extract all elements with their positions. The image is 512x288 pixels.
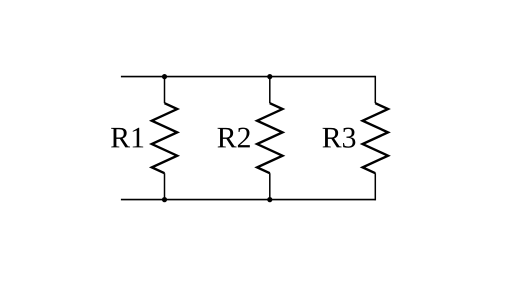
junction dot R2 bottom: [267, 197, 272, 202]
wire R3 bottom lead: [374, 173, 376, 200]
wire R3 top lead: [374, 76, 376, 103]
resistor R3: [363, 103, 388, 173]
label R3: [323, 128, 356, 148]
wire bottom rail: [121, 199, 375, 201]
junction dot R1 bottom: [162, 197, 167, 202]
wire R2 top lead: [269, 77, 271, 104]
wire R1 bottom lead: [164, 173, 166, 199]
junction dot R2 top: [267, 74, 272, 79]
label R1: [111, 128, 143, 148]
junction dot R1 top: [162, 74, 167, 79]
wire top rail: [121, 76, 375, 78]
wire R1 top lead: [164, 77, 166, 104]
label R2: [218, 128, 250, 148]
resistor R2: [257, 103, 282, 173]
resistor R1: [152, 103, 177, 173]
wire R2 bottom lead: [269, 173, 271, 199]
